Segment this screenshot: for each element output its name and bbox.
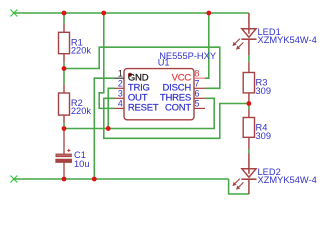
svg-text:5: 5 (195, 99, 200, 109)
U1 pin 2 stub (115, 87, 125, 89)
label R2 (71, 98, 92, 116)
label C1 (74, 150, 90, 169)
node pin1-gnd (92, 177, 97, 182)
node rail-RESET (101, 11, 106, 16)
capacitor C1 (56, 129, 71, 180)
label R4 (256, 123, 272, 141)
U1 pin 4 stub (115, 107, 125, 109)
wire R3 bottom to node C (248, 101, 250, 110)
node B R2/C1 (62, 126, 67, 131)
ground flag X bottom left (10, 176, 17, 183)
wire TRIG drop to node B (108, 88, 115, 128)
svg-text:7: 7 (195, 78, 200, 88)
wire node A to R2 top (63, 69, 65, 85)
node C R3/R4/OUT (247, 101, 252, 106)
wire R1 top stub (63, 13, 65, 24)
U1 pin 1 stub (115, 77, 125, 79)
label R3 (256, 78, 272, 96)
wire node A to DISCH horizontal (64, 47, 220, 88)
label R1 (71, 37, 92, 55)
node B TRIG (106, 126, 111, 131)
svg-text:220k: 220k (71, 45, 92, 55)
capacitor C1 plus sign (67, 149, 70, 152)
node A R1/R2/DISCH (62, 66, 67, 71)
svg-text:309: 309 (256, 86, 272, 96)
label LED1 (258, 27, 317, 45)
U1 pin 6 stub (194, 97, 205, 99)
wire LED1 cathode to R3 (248, 55, 250, 62)
LED1 emission arrows (232, 39, 243, 50)
label LED2 (258, 167, 317, 185)
wire R2 bottom to node B (63, 123, 65, 129)
svg-text:309: 309 (256, 131, 272, 141)
U1 pin numbers left (118, 68, 123, 108)
wire GND detour under LED2 (229, 179, 249, 194)
resistor R4 (243, 110, 254, 150)
node C1-gnd (62, 177, 67, 182)
resistor R2 (59, 85, 70, 123)
wire VCC top rail (14, 12, 249, 14)
svg-text:1: 1 (118, 68, 123, 78)
wire GND bottom rail (14, 178, 229, 180)
power flag X top left (10, 10, 17, 17)
svg-text:4: 4 (118, 99, 123, 109)
svg-text:2: 2 (118, 78, 123, 88)
svg-text:RESET: RESET (128, 103, 159, 114)
label U1 name (158, 51, 216, 67)
svg-text:8: 8 (195, 68, 200, 78)
U1 pin names left (128, 73, 159, 114)
U1 pin 5 stub (194, 107, 205, 109)
LED2 (241, 154, 256, 195)
svg-text:XZMYK54W-4: XZMYK54W-4 (258, 35, 317, 45)
U1 pin names right (160, 73, 192, 114)
svg-text:XZMYK54W-4: XZMYK54W-4 (258, 175, 317, 185)
resistor R1 (59, 24, 70, 63)
svg-text:220k: 220k (71, 106, 92, 116)
svg-text:CONT: CONT (165, 103, 191, 114)
wire R1 bottom to node A (63, 63, 65, 69)
wire R4 to LED2 (248, 149, 250, 153)
node rail-pin8 (206, 11, 211, 16)
U1 pin1 polarity dot (128, 73, 132, 77)
U1 pin 7 stub (194, 87, 205, 89)
junction node dots (62, 11, 252, 182)
IC U1 NE555P body (124, 69, 194, 120)
LED1 (241, 13, 256, 55)
wire GND pin1 drop (94, 78, 114, 179)
resistor R3 (243, 62, 254, 101)
node rail-R1 (62, 11, 67, 16)
svg-text:6: 6 (195, 88, 200, 98)
wire VCC to pin8 (205, 13, 209, 78)
svg-text:U1: U1 (158, 58, 170, 68)
wire VCC to RESET vertical (99, 13, 115, 108)
U1 pin numbers right (195, 68, 200, 108)
U1 pin 8 stub (194, 77, 205, 79)
svg-text:10u: 10u (74, 159, 90, 169)
U1 pin 3 stub (115, 97, 125, 99)
wire OUT to LED node (104, 98, 249, 138)
wire node B horizontal to THRES (64, 98, 214, 128)
svg-text:3: 3 (118, 88, 123, 98)
LED2 emission arrows (232, 179, 243, 190)
